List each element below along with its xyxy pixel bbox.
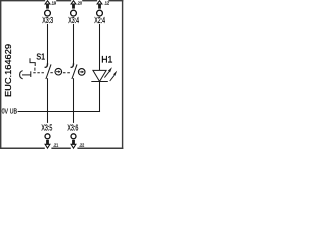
svg-text:X3:4: X3:4 — [68, 16, 79, 25]
turn-to-release symbol 1 — [55, 68, 62, 75]
wire col3 upper — [99, 24, 101, 71]
latch symbol (detent) of S1 — [30, 58, 35, 66]
svg-text:.12: .12 — [104, 1, 110, 6]
interruption arrow (bottom) X3:6 / wire 22 — [71, 140, 84, 148]
NC contact 2 (S1) on col2 — [71, 63, 77, 79]
svg-text:H1: H1 — [101, 54, 112, 64]
0V UB bus line — [18, 111, 100, 113]
terminal circle X3:3 — [45, 10, 51, 16]
svg-text:X3:6: X3:6 — [67, 124, 78, 133]
svg-text:EUC.164629: EUC.164629 — [4, 43, 13, 97]
terminal circle X2:4 — [97, 10, 103, 16]
wire col3 lower to bus — [99, 82, 101, 113]
svg-text:0V UB: 0V UB — [2, 109, 18, 116]
interruption arrow (bottom) X3:5 / wire 21 — [45, 140, 58, 148]
svg-text:.21: .21 — [53, 143, 59, 148]
svg-text:S1: S1 — [36, 51, 45, 61]
svg-text:X3:3: X3:3 — [42, 16, 53, 25]
svg-text:X3:5: X3:5 — [41, 124, 52, 133]
interruption arrow (top) X3:3 / wire 19 — [45, 1, 56, 9]
NC contact 1 (S1) on col1 — [45, 63, 51, 79]
mechanical linkage dashes — [33, 72, 45, 74]
LED arrow b — [110, 71, 118, 81]
LED arrow a — [104, 67, 112, 78]
wire col2 upper — [73, 24, 75, 64]
svg-text:.19: .19 — [51, 1, 57, 6]
wire col1 lower — [47, 78, 49, 123]
interruption arrow (top) X3:4 / wire 20 — [71, 1, 82, 9]
turn-to-release symbol 2 — [78, 69, 85, 76]
LED H1 — [91, 67, 117, 81]
interruption arrow (top) X2:4 / wire 12 — [97, 1, 109, 9]
svg-text:X2:4: X2:4 — [94, 16, 105, 25]
mushroom head actuator (E-stop) — [20, 71, 23, 79]
latch mechanical dash — [34, 68, 36, 71]
svg-text:.22: .22 — [79, 143, 85, 148]
terminal circle X3:4 — [71, 10, 77, 16]
frame border — [0, 0, 123, 149]
wire col2 lower — [73, 78, 75, 123]
svg-text:.20: .20 — [77, 1, 83, 6]
wire col1 upper — [47, 24, 49, 64]
terminal circle X3:5 — [45, 134, 50, 139]
terminal circle X3:6 — [71, 134, 76, 139]
